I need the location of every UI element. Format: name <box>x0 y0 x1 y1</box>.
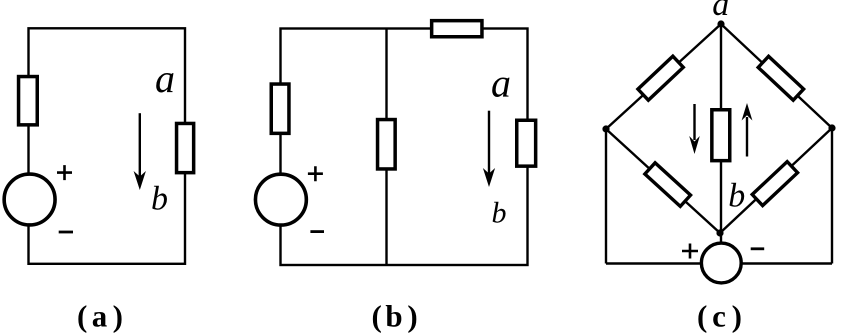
svg-text:b: b <box>492 197 507 230</box>
svg-text:c: c <box>712 299 726 334</box>
resistor upper-left of (c) <box>638 56 683 100</box>
wire left leg c <box>605 129 607 264</box>
svg-text:a: a <box>155 56 175 101</box>
arrow a to b in (b) <box>488 111 490 174</box>
svg-text:): ) <box>113 299 123 334</box>
down arrow left of middle resistor (c) <box>693 104 695 140</box>
resistor left of (b) <box>271 84 289 133</box>
arrow a to b in (a) <box>139 113 141 177</box>
resistor right of (a) <box>177 123 194 172</box>
resistor lower-left of (c) <box>645 163 691 207</box>
wire loop a <box>29 28 186 263</box>
svg-text:(: ( <box>372 299 382 334</box>
node dot bottom <box>716 229 723 236</box>
resistor middle of (c) <box>712 110 730 161</box>
svg-text:b: b <box>385 299 402 334</box>
node dot right <box>828 124 835 131</box>
minus sign of (b) source <box>310 230 324 233</box>
svg-text:a: a <box>712 0 729 23</box>
wire middle branch c <box>720 24 722 243</box>
minus sign of (a) source <box>59 231 73 234</box>
wire bottom c <box>606 262 832 264</box>
plus sign of (a) source <box>57 165 72 180</box>
resistor lower-right of (c) <box>752 162 797 206</box>
voltage source of (a) <box>4 174 55 225</box>
resistor right of (b) <box>517 120 536 166</box>
resistor left of (a) <box>19 77 38 125</box>
node dot left <box>602 125 609 132</box>
wire right leg c <box>831 128 833 264</box>
svg-text:a: a <box>92 299 108 334</box>
voltage source of (b) <box>255 174 306 225</box>
node dot top a <box>717 20 724 27</box>
svg-text:): ) <box>732 299 742 334</box>
resistor top of (b) <box>432 21 482 37</box>
svg-text:b: b <box>728 178 745 215</box>
wire middle branch b <box>385 29 387 266</box>
voltage source of (c) <box>701 243 741 283</box>
plus sign of (b) source <box>308 166 323 181</box>
svg-text:(: ( <box>77 299 87 334</box>
svg-text:): ) <box>407 299 417 334</box>
up arrow right of middle resistor (c) <box>746 117 748 157</box>
svg-text:a: a <box>491 61 511 106</box>
plus sign of (c) source <box>682 244 698 259</box>
resistor middle of (b) <box>378 120 396 169</box>
svg-text:(: ( <box>697 299 707 334</box>
wire diamond edges c <box>606 24 832 233</box>
svg-text:b: b <box>151 180 168 217</box>
wire loop b <box>281 29 528 266</box>
resistor upper-right of (c) <box>758 56 803 100</box>
minus sign of (c) source <box>751 247 765 250</box>
